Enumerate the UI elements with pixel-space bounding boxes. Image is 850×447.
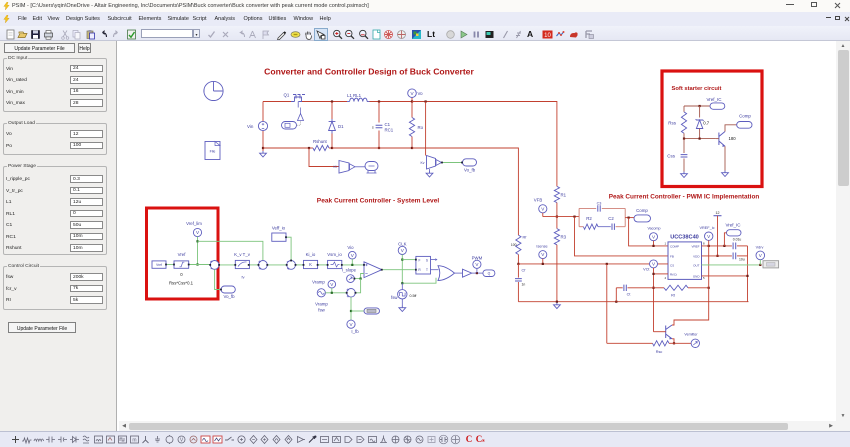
bottom element toolbar xyxy=(0,431,850,447)
svg-text:Ki_io: Ki_io xyxy=(306,252,316,257)
svg-text:Isense: Isense xyxy=(536,244,547,248)
svg-text:Comp: Comp xyxy=(636,208,648,213)
wire Ki to scope xyxy=(355,166,365,168)
svg-text:Veff_io: Veff_io xyxy=(272,226,286,231)
svg-text:Vsm_io: Vsm_io xyxy=(327,252,342,257)
wire VDD net xyxy=(702,255,732,257)
svg-text:fv: fv xyxy=(242,276,245,280)
wire emitter net xyxy=(672,339,674,344)
wire L1 to C1 node xyxy=(370,101,413,103)
svg-text:Rt: Rt xyxy=(671,293,676,297)
svg-text:Vo_fb: Vo_fb xyxy=(223,294,235,299)
svg-text:Css: Css xyxy=(667,154,675,159)
wire bottom rail to right drop xyxy=(412,148,518,235)
svg-text:Rsc: Rsc xyxy=(656,350,663,354)
wire buffer to PWM node xyxy=(472,272,483,274)
label Vo_fb in xyxy=(221,286,235,293)
svg-text:5: 5 xyxy=(703,276,705,280)
wire Rshunt to Ki sensor xyxy=(309,148,339,167)
wire OUT green xyxy=(702,264,761,266)
wire comp to COMP pin xyxy=(629,218,668,246)
svg-text:T: T xyxy=(426,268,428,272)
wire summer2 to summer3 xyxy=(267,264,286,266)
wire collector to Comp xyxy=(725,125,737,132)
svg-text:180: 180 xyxy=(729,136,737,141)
svg-text:C1: C1 xyxy=(385,122,391,127)
svg-text:Vref: Vref xyxy=(156,263,162,267)
svg-text:Rss*Css*0.1: Rss*Css*0.1 xyxy=(169,280,194,285)
limiter block xyxy=(174,261,189,268)
wire summer4 down xyxy=(350,297,352,320)
svg-text:Rshunt: Rshunt xyxy=(313,139,328,144)
svg-text:Vemitter: Vemitter xyxy=(684,332,698,336)
current scope element xyxy=(365,162,378,174)
svg-text:Kv: Kv xyxy=(421,161,425,165)
svg-text:R3: R3 xyxy=(561,235,567,240)
wire limiter to summer1 xyxy=(189,264,211,266)
voltmeter I_fb xyxy=(347,320,355,328)
svg-text:Vin: Vin xyxy=(247,124,254,129)
svg-text:FB: FB xyxy=(670,254,674,258)
svg-text:12: 12 xyxy=(716,211,720,215)
svg-text:Q1: Q1 xyxy=(284,93,290,98)
resistor R1 xyxy=(554,186,559,202)
compensation network R2 C2 C3 xyxy=(579,207,596,209)
wire base rail xyxy=(684,138,716,140)
source Vramp sine xyxy=(317,289,325,297)
svg-text:C3: C3 xyxy=(597,201,602,205)
svg-text:VCt: VCt xyxy=(643,268,650,272)
clock element xyxy=(204,81,223,100)
wire Rsc riser to CS xyxy=(606,264,608,343)
block Vsm_io xyxy=(328,260,342,268)
sensor Kv xyxy=(427,156,442,170)
label source Vref xyxy=(152,261,166,268)
capacitor C3 xyxy=(598,205,600,211)
svg-text:m: m xyxy=(132,437,136,443)
svg-text:Vref: Vref xyxy=(178,252,187,257)
wire summer3 to K block xyxy=(296,264,304,266)
svg-text:Vo: Vo xyxy=(418,91,424,96)
wire K to Vsm block xyxy=(318,264,328,266)
file element xyxy=(205,142,220,160)
buffer gate xyxy=(463,269,472,277)
voltmeter Vo xyxy=(411,98,413,102)
summer 3 xyxy=(287,261,296,270)
svg-text:fsw: fsw xyxy=(318,308,325,313)
svg-text:RC1: RC1 xyxy=(385,128,394,133)
svg-text:VREF_ic: VREF_ic xyxy=(700,226,715,230)
flip-flop xyxy=(416,256,431,274)
wire Veff_io to summer3 xyxy=(286,237,291,260)
ground below fsw xyxy=(401,299,403,306)
svg-text:Vref_IC: Vref_IC xyxy=(706,97,722,102)
wire FB net down xyxy=(575,217,669,256)
svg-text:OUT: OUT xyxy=(693,263,700,267)
svg-text:fsw: fsw xyxy=(391,295,398,300)
gating block Q xyxy=(282,122,297,130)
inductor L1 RL1 xyxy=(347,101,350,103)
label I_fb link xyxy=(351,310,364,312)
transistor soft start xyxy=(719,132,725,147)
label Vo_fb out xyxy=(463,159,477,166)
svg-text:1n: 1n xyxy=(522,283,526,287)
wire summer1 to Kv block xyxy=(219,264,235,266)
red highlight box soft-start reference xyxy=(147,208,219,299)
svg-text:Rf: Rf xyxy=(523,235,528,239)
svg-text:S: S xyxy=(426,259,428,263)
capacitor Ct xyxy=(616,287,622,289)
svg-text:Vref_IC: Vref_IC xyxy=(725,222,741,227)
comparator xyxy=(364,262,382,278)
svg-text:Vramp: Vramp xyxy=(312,279,325,284)
wire soft start top xyxy=(684,105,710,107)
svg-text:K_v T_v: K_v T_v xyxy=(234,252,251,257)
svg-text:8: 8 xyxy=(703,242,705,246)
wire Vo_fb to summer1 xyxy=(215,269,221,289)
wire comparator out to flipflop R xyxy=(382,269,416,271)
svg-text:Vio: Vio xyxy=(347,245,354,250)
wire VREF vertical to Rt and collector xyxy=(708,246,710,288)
svg-text:Vramp: Vramp xyxy=(315,301,328,306)
svg-text:Rss: Rss xyxy=(668,121,676,126)
svg-text:Vdrv: Vdrv xyxy=(756,245,764,249)
svg-text:0.5ff: 0.5ff xyxy=(410,294,417,298)
block Veff_io xyxy=(272,233,286,241)
pin connection dots xyxy=(165,264,167,266)
resistor Rsc xyxy=(653,341,670,346)
capacitor C1 xyxy=(378,102,380,123)
resistor Ro xyxy=(411,102,413,118)
svg-text:D1: D1 xyxy=(338,124,344,129)
svg-text:s: s xyxy=(372,126,374,130)
svg-text:UCC38C40: UCC38C40 xyxy=(670,235,699,241)
svg-text:I_fb: I_fb xyxy=(351,329,359,334)
svg-text:4: 4 xyxy=(665,276,667,280)
svg-text:R2: R2 xyxy=(586,216,592,221)
ground below Css xyxy=(681,172,688,178)
wire bottom rail mid xyxy=(332,147,412,149)
label gate link selected xyxy=(763,261,779,268)
zener diode 0.7 xyxy=(699,106,701,118)
svg-text:Cf: Cf xyxy=(522,268,527,272)
wire Vref to limiter xyxy=(166,264,175,266)
svg-text:0: 0 xyxy=(180,272,183,277)
svg-text:Vacomp: Vacomp xyxy=(648,226,661,230)
svg-text:CLK: CLK xyxy=(398,242,407,247)
voltmeter VCt xyxy=(650,260,658,268)
svg-text:I_slope: I_slope xyxy=(342,267,357,272)
svg-text:VFB: VFB xyxy=(534,197,543,202)
ground below transistor xyxy=(722,171,729,177)
horizontal scrollbar xyxy=(119,421,850,431)
wire RtCt pin stub xyxy=(654,273,669,275)
wire OR to buffer xyxy=(455,272,463,274)
ground below Vin xyxy=(262,148,264,151)
wire VREF pin net xyxy=(702,245,732,247)
wire GND pin xyxy=(702,275,748,277)
svg-text:F: F xyxy=(419,259,421,263)
wire node to Kv xyxy=(425,102,427,156)
svg-text:R1: R1 xyxy=(561,193,567,198)
svg-text:L1 RL1: L1 RL1 xyxy=(347,93,362,98)
capacitor Css xyxy=(683,139,685,153)
wire CLK net xyxy=(401,255,403,284)
wire I_slope to comparator xyxy=(354,274,364,279)
svg-text:Vo_fb: Vo_fb xyxy=(464,168,476,173)
svg-text:0.7: 0.7 xyxy=(703,121,710,126)
resistor Rss xyxy=(683,106,685,112)
resistor Rt xyxy=(654,287,665,289)
wire Vsm to comparator xyxy=(342,264,364,266)
wire Vin stubs xyxy=(262,102,264,122)
svg-text:Peak Current Controller - Syst: Peak Current Controller - System Level xyxy=(317,198,440,205)
svg-text:Comp: Comp xyxy=(739,114,751,119)
mosfet Q1 xyxy=(291,95,305,108)
transistor Q discharge xyxy=(666,325,673,339)
wire Vin top xyxy=(263,101,291,103)
wire CLK to flipflop S xyxy=(402,259,416,261)
wire Q1 drain to node xyxy=(302,101,347,103)
svg-text:COMP: COMP xyxy=(670,244,679,248)
svg-text:100: 100 xyxy=(511,243,517,247)
capacitor C2 xyxy=(612,224,614,230)
gate driver triangle xyxy=(298,114,304,121)
ground below Kv xyxy=(429,169,431,171)
wire flipflop Q out xyxy=(431,259,436,261)
source fsw clock xyxy=(401,283,403,289)
wire CS line xyxy=(518,263,668,265)
svg-text:VREF: VREF xyxy=(691,244,699,248)
svg-text:Ki: Ki xyxy=(333,165,336,169)
wire slope summer riser xyxy=(356,279,361,293)
svg-text:Vref_lim: Vref_lim xyxy=(186,221,202,226)
menu bar xyxy=(0,12,850,26)
svg-text:File: File xyxy=(210,149,216,153)
wire bottom rail left xyxy=(263,147,309,149)
svg-text:Soft starter circuit: Soft starter circuit xyxy=(672,86,722,92)
gain block Ki_io xyxy=(304,260,318,268)
wire Kv to Vo_fb label xyxy=(442,162,463,164)
svg-text:Ro: Ro xyxy=(418,125,424,130)
svg-text:Converter and Controller Desig: Converter and Controller Design of Buck … xyxy=(264,67,474,77)
source Vin xyxy=(258,121,267,130)
wire VFB horizontal xyxy=(543,216,579,218)
wire R3 to ground rail xyxy=(556,245,558,302)
svg-text:Q: Q xyxy=(488,272,491,276)
wire block to summer2 xyxy=(249,264,258,266)
svg-text:Rt/Ct: Rt/Ct xyxy=(670,272,677,276)
summer 2 xyxy=(259,261,268,270)
svg-text:C2: C2 xyxy=(608,216,614,221)
svg-text:10u: 10u xyxy=(739,257,745,261)
resistor R2 xyxy=(583,224,598,229)
svg-text:Ct: Ct xyxy=(627,292,632,296)
red highlight box soft starter xyxy=(662,71,762,187)
window title bar xyxy=(0,0,850,12)
resistor R3 xyxy=(556,217,558,229)
svg-text:PWM: PWM xyxy=(472,255,483,260)
resistor RI xyxy=(516,235,521,254)
wire CLK branch to OR xyxy=(402,278,436,283)
capacitor bypass 10u xyxy=(733,253,736,260)
resistor Rshunt xyxy=(309,147,313,149)
svg-text:10: 10 xyxy=(544,33,551,39)
vertical scrollbar xyxy=(836,41,850,421)
sensor Ki xyxy=(339,161,355,174)
toolbar xyxy=(0,26,850,41)
wire emitter to ground xyxy=(724,146,726,170)
transfer block K_v T_v xyxy=(235,260,249,268)
svg-text:CS: CS xyxy=(670,263,674,267)
canvas xyxy=(119,41,836,421)
wire ground rail PWM xyxy=(518,301,748,303)
svg-text:K: K xyxy=(309,262,312,267)
svg-text:1: 1 xyxy=(665,242,667,246)
diode D1 xyxy=(331,102,333,120)
label Q out xyxy=(483,270,495,277)
svg-text:GND: GND xyxy=(693,274,701,278)
wire Vref_lim distribution xyxy=(198,241,263,260)
ground on rail xyxy=(556,301,558,303)
wire right vertical to rail xyxy=(747,246,749,302)
wire base xyxy=(654,331,666,333)
wire top rail to right drop xyxy=(412,102,557,187)
summer 4 xyxy=(347,289,356,298)
svg-text:Peak Current Controller - PWM: Peak Current Controller - PWM IC Impleme… xyxy=(609,193,760,200)
wire comp node xyxy=(625,217,634,219)
summer 1 xyxy=(210,261,219,270)
svg-text:0.01u: 0.01u xyxy=(733,237,742,241)
or gate xyxy=(438,266,455,281)
wire Vramp to summer4 xyxy=(325,292,346,294)
svg-text:VDD: VDD xyxy=(693,254,700,258)
wire flipflop to OR xyxy=(431,269,439,271)
